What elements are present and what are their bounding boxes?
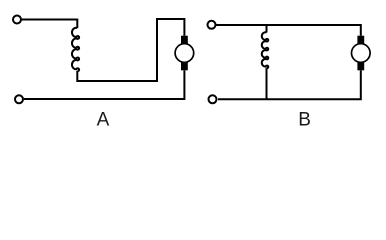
svg-text:B: B (298, 109, 311, 130)
wire T1 to coil top (22, 20, 78, 29)
wire coil branch top (266, 25, 268, 33)
terminal T3 (circuit B, top-left) (208, 21, 216, 29)
terminal T4 (circuit B, bottom-left) (209, 95, 217, 103)
inductor L1 (circuit A coil) (72, 28, 79, 71)
lamp DS2 (circuit B) (352, 36, 371, 71)
wire coil bottom to right riser (77, 71, 157, 81)
wire top rail of B (216, 25, 361, 36)
wire lamp bottom and bottom rail of B (218, 70, 361, 99)
wire riser up and over to lamp top (157, 19, 184, 82)
inductor L2 (circuit B coil) (262, 32, 268, 68)
svg-text:A: A (97, 109, 110, 130)
wire coil branch bottom (266, 68, 268, 99)
wire lamp bottom to bottom rail (24, 70, 184, 99)
terminal T1 (circuit A, top-left) (13, 16, 21, 24)
lamp DS1 (circuit A) (175, 36, 194, 71)
terminal T2 (circuit A, bottom-left) (15, 95, 23, 103)
